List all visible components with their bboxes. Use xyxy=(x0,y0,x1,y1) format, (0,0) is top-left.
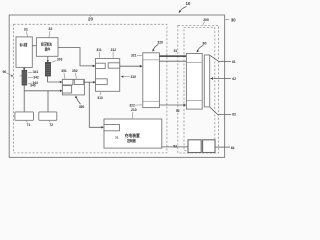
svg-text:64: 64 xyxy=(231,146,235,150)
label 312 xyxy=(111,48,117,58)
wire rectifier to controller xyxy=(58,48,96,68)
svg-text:350: 350 xyxy=(79,105,85,109)
svg-text:72: 72 xyxy=(49,123,53,127)
svg-text:341: 341 xyxy=(33,70,39,74)
label 61 xyxy=(210,55,236,64)
battery pack dashed enclosure xyxy=(178,25,219,153)
charging device dashed enclosure xyxy=(14,24,167,153)
label 71 xyxy=(26,121,30,127)
battery side bar xyxy=(204,55,209,107)
svg-text:52: 52 xyxy=(176,109,180,113)
svg-text:器件: 器件 xyxy=(44,46,51,51)
svg-text:变压整流: 变压整流 xyxy=(41,41,52,46)
svg-text:80: 80 xyxy=(203,41,207,45)
transformer element component xyxy=(45,62,50,76)
label 200 xyxy=(203,18,209,25)
label 343 xyxy=(28,81,38,85)
temperature sensor box right xyxy=(203,140,215,153)
label 64 xyxy=(215,146,235,150)
port 313 xyxy=(96,79,108,85)
svg-text:21: 21 xyxy=(115,136,119,140)
io cluster box xyxy=(62,79,84,95)
wire box1 down xyxy=(23,67,25,70)
label 311 xyxy=(96,48,101,58)
svg-text:61: 61 xyxy=(232,60,236,64)
svg-text:输入装置: 输入装置 xyxy=(20,42,28,47)
label 341 xyxy=(28,70,39,74)
wire box2 down xyxy=(47,56,49,62)
label 32 xyxy=(48,27,52,37)
svg-text:200: 200 xyxy=(203,18,209,22)
label 310 xyxy=(121,75,136,79)
label 63 xyxy=(210,107,236,116)
label 30 xyxy=(225,17,236,22)
port 312 xyxy=(108,63,120,68)
rectifier box xyxy=(36,38,58,57)
controller box xyxy=(96,59,120,92)
wire junction down to charge controller xyxy=(89,82,104,128)
port 21 xyxy=(104,125,120,131)
svg-text:312: 312 xyxy=(111,48,117,52)
power wire return xyxy=(159,60,186,62)
charging control box xyxy=(104,119,162,148)
svg-text:311: 311 xyxy=(96,48,101,52)
temperature sensor box left xyxy=(188,140,201,153)
svg-text:342: 342 xyxy=(33,75,39,79)
port 353 xyxy=(62,86,71,93)
wire box1 to box2 xyxy=(32,45,36,47)
label 313 xyxy=(97,92,103,100)
svg-text:320: 320 xyxy=(157,41,163,45)
label 350 xyxy=(75,96,85,109)
wire heater down to bus xyxy=(23,85,25,112)
svg-text:控制器: 控制器 xyxy=(127,138,136,143)
label 20 xyxy=(88,15,93,21)
box 72 xyxy=(39,112,57,120)
svg-text:351: 351 xyxy=(61,69,67,73)
riser wire to box B xyxy=(47,91,49,112)
svg-text:352: 352 xyxy=(72,69,78,73)
label 10 xyxy=(179,1,191,13)
label 31 xyxy=(24,28,28,37)
bottom wire to battery temperature boxes xyxy=(162,146,188,148)
signal wire to battery xyxy=(159,104,186,107)
svg-text:63: 63 xyxy=(232,113,236,117)
label 321 xyxy=(131,54,142,58)
label 342 xyxy=(28,75,39,79)
svg-text:340: 340 xyxy=(30,84,36,88)
label 352 xyxy=(72,69,78,79)
svg-text:充电装置: 充电装置 xyxy=(125,133,140,138)
port 352 xyxy=(74,79,83,84)
svg-text:313: 313 xyxy=(97,96,103,100)
svg-text:62: 62 xyxy=(232,77,236,81)
wire controller to adapter xyxy=(120,65,143,68)
svg-text:303: 303 xyxy=(57,58,63,62)
label 90 outside left xyxy=(3,70,14,77)
label 210 xyxy=(131,108,137,119)
svg-text:210: 210 xyxy=(131,108,137,112)
svg-text:71: 71 xyxy=(27,123,31,127)
label 322 xyxy=(129,104,142,108)
input device box xyxy=(16,37,32,68)
svg-text:30: 30 xyxy=(231,17,236,22)
svg-text:32: 32 xyxy=(48,27,52,31)
svg-text:90: 90 xyxy=(3,70,7,74)
wire cluster to controller xyxy=(84,81,95,83)
svg-text:53: 53 xyxy=(173,144,177,148)
label 62 xyxy=(210,77,236,81)
label 351 xyxy=(61,69,67,79)
battery cell box xyxy=(186,54,202,110)
power wire thick to battery xyxy=(159,55,186,57)
label 303 xyxy=(52,58,63,63)
label 80 xyxy=(197,41,207,52)
battery module inner dashed box xyxy=(184,27,215,150)
svg-text:10: 10 xyxy=(186,1,191,6)
svg-text:310: 310 xyxy=(130,75,136,79)
port 351 xyxy=(62,79,73,85)
outer solid enclosure box xyxy=(9,15,224,157)
label 320 xyxy=(152,41,163,52)
svg-text:20: 20 xyxy=(88,17,93,22)
adapter column box xyxy=(143,53,160,108)
label 72 xyxy=(49,121,53,127)
svg-text:51: 51 xyxy=(174,49,178,53)
port 311 xyxy=(96,63,106,68)
heater element component xyxy=(19,70,27,85)
wire transformer to io cluster xyxy=(48,76,63,83)
svg-text:322: 322 xyxy=(129,104,135,108)
box 71 xyxy=(15,112,34,120)
svg-text:321: 321 xyxy=(131,54,137,58)
bus wire xyxy=(24,90,62,92)
svg-text:31: 31 xyxy=(24,28,28,32)
